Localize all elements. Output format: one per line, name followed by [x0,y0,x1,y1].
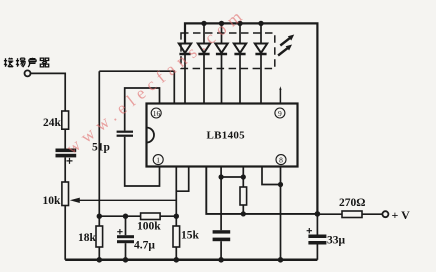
wire: 270 to +V terminal [362,213,383,215]
watermark www.elecfans.com [62,3,250,158]
wire: 18k node rail with 100k [99,215,176,217]
op-amp U1 LB1405 [147,104,298,167]
node dot pin7/pin8 [278,182,283,187]
node: +V terminal [382,211,388,217]
wire: pin 6 to resistor R6 [242,167,244,188]
wire: LED anode top rail [185,23,317,214]
wire: pot wiper arrow to IC pin2 [80,199,177,201]
LED D1 [179,44,191,104]
node: speaker input terminal [25,70,31,76]
node dots pin5/pin6 link [219,174,246,179]
wire: 24k to C1 [64,129,66,148]
node dots on ground rail [97,257,284,263]
svg-text:15k: 15k [181,230,200,242]
wire: R6 bottom to +V rail [242,205,244,214]
wire: ground bottom rail [65,259,317,262]
resistor R4 100k [141,213,161,220]
wire: pin 3 to pin 2 vertical [176,167,188,192]
char SHENG [28,58,36,67]
wire: pin5-pin6 link [221,176,243,178]
svg-text:8: 8 [279,155,283,164]
svg-text:270Ω: 270Ω [339,197,365,209]
wire: input terminal to 24k resistor [31,73,66,111]
polarity + of C1 [67,158,73,164]
IC notch [147,128,155,143]
wire: 10k pot bottom to ground rail [64,206,66,260]
LED D3 [215,44,227,104]
node dots on 216 rail [97,214,179,219]
capacitor C1 (electrolytic, input coupling) [56,149,77,158]
svg-text:+ V: + V [392,208,411,222]
svg-text:51p: 51p [92,142,110,154]
polarity + of C3 [117,229,122,234]
wire: C5 to ground [316,245,318,260]
svg-text:100k: 100k [137,221,161,233]
wire: vertical feedback line x=99 [98,71,100,216]
wire: pin 9 stub [279,89,281,104]
svg-text:18k: 18k [78,232,97,244]
pin 1 [153,155,163,165]
pin 8 [276,155,286,165]
svg-text:24k: 24k [43,117,62,129]
LED D5 [255,44,267,104]
svg-text:10k: 10k [43,195,62,207]
wire: pin 4 to +V rail [206,167,317,214]
LED D2 [198,44,210,104]
wire: pin15 horizontal to feedback line [99,71,174,103]
resistor R3 15k [175,216,177,226]
polarity + of C5 [307,228,312,233]
wire: C1 to 10k pot [64,157,66,182]
svg-text:4.7μ: 4.7μ [134,240,155,252]
char JIE [4,58,13,67]
wire: +V junction to 270 resistor [317,213,342,215]
svg-text:16: 16 [153,109,161,118]
resistor R5 270ohm [342,211,362,218]
LED display dashed enclosure [181,33,275,69]
label: speaker input text (drawn CJK strokes) [4,58,49,67]
node dots on anode rail [201,21,263,26]
char YANG [16,58,25,67]
node dot +V junction [315,211,321,217]
LED D4 [234,44,246,104]
wire: 51p top to pin16 [125,88,160,131]
node dot R6/+V rail [241,211,246,216]
potentiometer RP 10k [62,182,69,206]
wire: pin 8 ground drop [280,167,282,260]
capacitor C4 [213,230,231,241]
wire: C4 bottom to ground [220,241,222,260]
wire: LED anode drops [204,23,261,43]
svg-text:33μ: 33μ [327,235,346,247]
resistor R2 18k [98,216,100,226]
wire: pin 5 drop to C4 [220,167,222,231]
svg-text:LB1405: LB1405 [207,129,246,141]
pin 9 [275,108,285,118]
wire: pin 7 to pin 8 line [262,167,281,185]
wire: pin 2 drop to 15k node [175,167,177,217]
LED light emission arrows [278,35,294,56]
wire: 51p bottom to pin1 [125,137,160,186]
capacitor C5 33u [316,214,318,235]
svg-text:9: 9 [278,109,282,118]
capacitor C2 51p [117,131,133,137]
char QI [40,58,48,67]
resistor R1 24k [62,111,69,129]
svg-text:1: 1 [156,155,160,164]
resistor R6 (unlabelled) [240,187,247,205]
capacitor C3 4.7u [125,216,127,235]
pin 16 [151,108,161,118]
